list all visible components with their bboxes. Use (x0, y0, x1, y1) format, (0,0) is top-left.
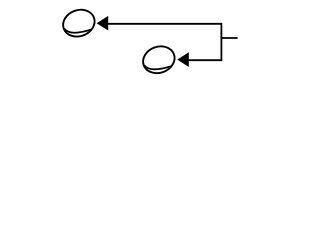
wire vertical bus (220, 23, 222, 61)
coin D1 (59, 5, 98, 40)
coin D2 (139, 42, 178, 77)
wire W1 from arrow A1 to bus (108, 23, 222, 25)
arrowhead A1 (97, 16, 109, 31)
stub terminal (221, 37, 237, 39)
wire W2 from bus to arrow A2 (189, 59, 222, 61)
arrowhead A2 (177, 52, 189, 67)
